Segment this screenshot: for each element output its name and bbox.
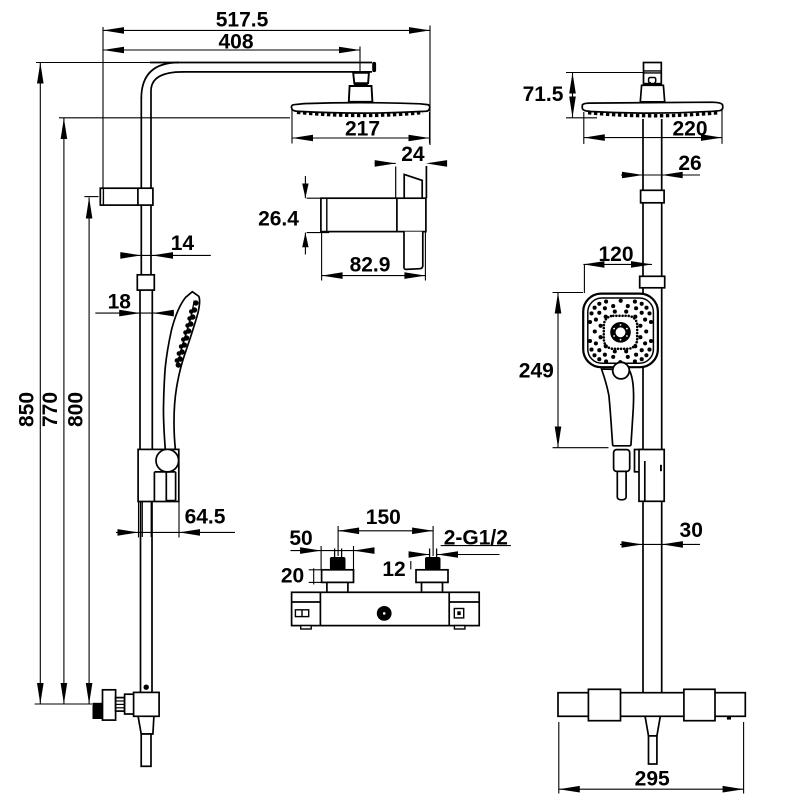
head connector (side view) [349, 73, 373, 102]
dim 295 [559, 722, 744, 794]
rain shower head (side view) [291, 103, 429, 116]
dim 20 [281, 564, 322, 587]
dim 770 vertical line [61, 118, 68, 704]
dim 120 [583, 243, 652, 293]
dim 26 [621, 152, 702, 179]
mixer right riser [422, 582, 443, 592]
rain shower head (front view) [582, 102, 723, 116]
mixer left inlet nut [330, 557, 346, 570]
svg-text:12: 12 [382, 558, 405, 581]
extension line y=704 (wall supply center) [35, 703, 92, 705]
hand shower mode button [613, 362, 630, 379]
mixer left indicator window [295, 610, 308, 617]
hand shower face center hub [603, 315, 639, 351]
outlet stub pipe [649, 736, 657, 764]
dim 24 [375, 143, 448, 167]
dim 517.5 [103, 9, 430, 34]
svg-text:26.4: 26.4 [258, 207, 299, 230]
dim 30 [620, 519, 703, 548]
slide collar (side view) [137, 275, 154, 290]
svg-text:217: 217 [345, 117, 380, 140]
fitting flange (front view) [640, 85, 664, 102]
dim 14 (pipe width) [120, 232, 211, 259]
extension line x=430 (end of 517.5) [429, 26, 431, 146]
dim 64.5 [116, 502, 235, 538]
svg-text:82.9: 82.9 [350, 253, 391, 276]
bracket detail hook arm bottom [404, 232, 423, 270]
svg-text:517.5: 517.5 [216, 9, 269, 32]
bracket detail hook arm top [396, 166, 427, 198]
svg-text:850: 850 [16, 392, 39, 427]
svg-text:295: 295 [635, 767, 670, 790]
svg-text:64.5: 64.5 [185, 506, 226, 529]
svg-text:14: 14 [171, 232, 195, 255]
svg-text:30: 30 [680, 519, 703, 542]
dim 150 [338, 506, 433, 534]
shelf right clamp [684, 689, 715, 720]
riser pipe lower section [141, 502, 153, 693]
mixer left inlet flange [322, 570, 354, 583]
dim 50 [289, 527, 374, 583]
hand shower holder (front view) [639, 450, 664, 502]
dim 2-G1/2 leader [441, 526, 511, 549]
shelf left clamp [588, 689, 620, 720]
svg-text:408: 408 [218, 30, 253, 53]
outlet funnel (front view) [645, 716, 660, 736]
hand shower holder hook (front view) [635, 450, 643, 472]
mixer right inlet nut [425, 557, 441, 570]
bracket detail horizontal bar [321, 198, 426, 231]
wall bracket (side view) [100, 188, 153, 205]
svg-text:249: 249 [519, 359, 554, 382]
column pipe (front view) [643, 119, 662, 693]
shelf end notch [727, 716, 731, 719]
lower collar (front view) [640, 276, 665, 288]
dim 850 vertical line [37, 63, 44, 705]
ceiling fitting (front view) [644, 63, 662, 86]
svg-text:150: 150 [366, 506, 401, 529]
dim 220 [584, 108, 722, 144]
riser tube lower (18mm) [140, 290, 152, 449]
svg-text:120: 120 [598, 243, 633, 266]
hand shower (side view) [163, 292, 199, 450]
dim 12 [382, 551, 499, 581]
slider holder (side view) [138, 449, 179, 501]
svg-text:24: 24 [401, 143, 425, 166]
hand shower handle (front view) [602, 369, 634, 500]
mixer feet [301, 626, 465, 629]
upper collar (front view) [641, 190, 665, 203]
mixer left riser [327, 582, 348, 592]
svg-text:20: 20 [281, 564, 304, 587]
riser pipe upper (14mm) [141, 91, 151, 275]
hand shower head (front view) [583, 294, 658, 368]
mixer right inlet flange [416, 570, 448, 583]
svg-text:71.5: 71.5 [523, 83, 564, 106]
wall supply elbow (side view) [93, 690, 160, 767]
extension line x=360 (head connector axis) [359, 47, 361, 74]
mixer control knob [377, 606, 392, 621]
dim 71.5 [523, 73, 644, 118]
mixer inlet extension lines [335, 526, 437, 557]
pipe locating dot [144, 685, 149, 690]
dim 18 (tube width) [95, 291, 174, 317]
svg-text:50: 50 [289, 527, 312, 550]
extension line y=118 (bottom of rain head) [59, 117, 290, 119]
svg-text:26: 26 [678, 152, 701, 175]
svg-text:220: 220 [672, 117, 707, 140]
shower arm (side view) [141, 62, 376, 99]
dim 408 [103, 30, 360, 53]
dim 82.9 [322, 232, 426, 281]
svg-text:770: 770 [39, 392, 62, 427]
shelf bar (front view) [558, 693, 745, 717]
extension line x=103 (pipe axis left) [102, 27, 104, 188]
mixer body [292, 592, 480, 625]
dim 26.4 [258, 176, 329, 255]
svg-text:18: 18 [108, 291, 132, 314]
dim 800 vertical line [84, 197, 98, 704]
svg-text:800: 800 [65, 392, 88, 427]
dim 249 [519, 293, 609, 448]
wire [36, 62, 150, 64]
dim 217 [292, 109, 430, 144]
mixer right indicator window [454, 609, 463, 618]
